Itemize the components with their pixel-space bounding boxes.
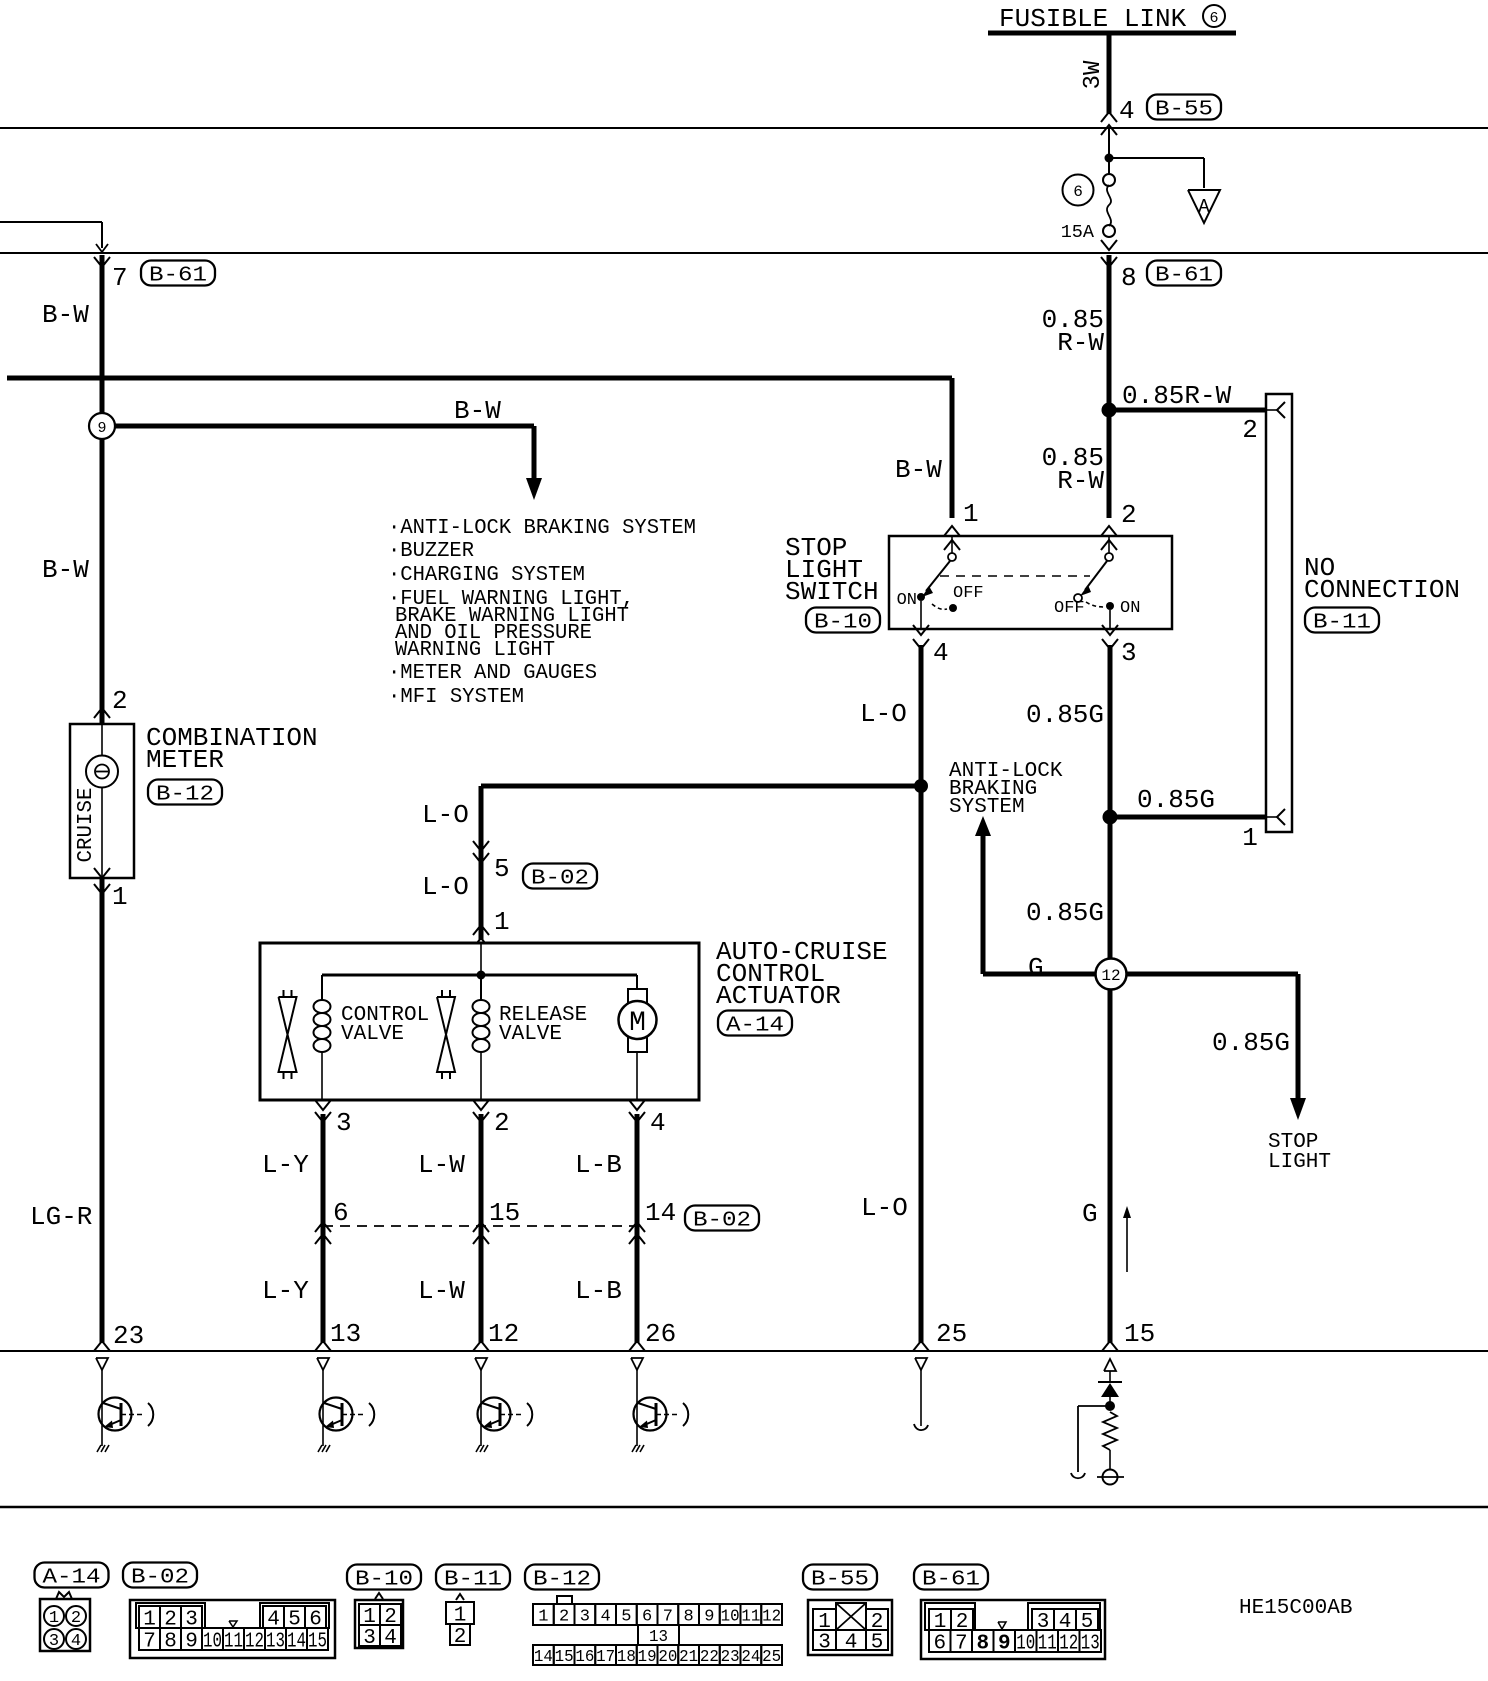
svg-text:5: 5 [621,1608,631,1627]
svg-text:6: 6 [1209,10,1218,27]
svg-text:G: G [1028,953,1044,983]
svg-text:B-11: B-11 [444,1569,502,1592]
svg-text:6: 6 [1073,183,1083,201]
svg-text:ON: ON [897,591,917,610]
svg-text:13: 13 [1081,1633,1100,1656]
svg-text:CRUISE: CRUISE [75,788,98,863]
svg-text:12: 12 [1101,967,1120,985]
svg-text:1: 1 [963,499,979,529]
svg-text:B-W: B-W [895,455,942,485]
svg-text:0.85R-W: 0.85R-W [1122,381,1232,411]
svg-text:14: 14 [534,1648,553,1667]
svg-text:B-W: B-W [42,300,89,330]
svg-text:2: 2 [559,1608,569,1627]
svg-text:B-02: B-02 [531,868,589,891]
svg-text:1: 1 [112,882,128,912]
svg-text:·ANTI-LOCK BRAKING SYSTEM: ·ANTI-LOCK BRAKING SYSTEM [388,517,696,540]
svg-text:7: 7 [112,263,128,293]
svg-text:23: 23 [721,1648,740,1667]
svg-text:22: 22 [700,1648,719,1667]
svg-text:B-11: B-11 [1313,612,1371,635]
svg-text:7: 7 [143,1631,156,1654]
svg-text:15: 15 [555,1648,574,1667]
svg-text:R-W: R-W [1057,328,1104,358]
svg-text:1: 1 [1242,823,1258,853]
svg-text:ACTUATOR: ACTUATOR [716,981,841,1011]
svg-text:B-W: B-W [42,555,89,585]
svg-text:24: 24 [741,1648,760,1667]
svg-text:9: 9 [704,1608,714,1627]
svg-text:SWITCH: SWITCH [785,577,879,607]
svg-text:10: 10 [721,1608,740,1627]
svg-text:B-55: B-55 [811,1569,869,1592]
svg-text:8: 8 [1121,263,1137,293]
svg-text:5: 5 [871,1632,884,1655]
svg-text:6: 6 [933,1633,946,1656]
svg-text:B-61: B-61 [149,265,207,288]
svg-text:11: 11 [224,1631,243,1654]
svg-text:13: 13 [266,1631,285,1654]
svg-text:0.85G: 0.85G [1212,1028,1290,1058]
svg-text:8: 8 [684,1608,694,1627]
svg-text:LIGHT: LIGHT [1268,1151,1331,1174]
svg-text:19: 19 [638,1648,657,1667]
svg-text:23: 23 [113,1321,144,1351]
svg-text:4: 4 [601,1608,611,1627]
svg-text:12: 12 [488,1319,519,1349]
svg-text:3W: 3W [1080,60,1107,89]
svg-text:A-14: A-14 [43,1567,101,1590]
svg-text:B-10: B-10 [814,612,872,635]
svg-text:15: 15 [308,1631,327,1654]
svg-text:1: 1 [494,907,510,937]
svg-text:M: M [629,1008,646,1039]
svg-text:WARNING LIGHT: WARNING LIGHT [395,639,555,662]
svg-text:B-02: B-02 [693,1210,751,1233]
svg-text:L-O: L-O [861,1193,908,1223]
svg-text:0.85G: 0.85G [1137,785,1215,815]
svg-text:4: 4 [933,638,949,668]
svg-text:A: A [1198,196,1210,218]
svg-text:L-W: L-W [418,1276,465,1306]
svg-text:15: 15 [1124,1319,1155,1349]
svg-text:8: 8 [164,1631,177,1654]
svg-text:3: 3 [336,1108,352,1138]
svg-text:3: 3 [580,1608,590,1627]
svg-text:6: 6 [333,1198,349,1228]
svg-text:25: 25 [936,1319,967,1349]
svg-text:4: 4 [1119,96,1135,126]
svg-text:OFF: OFF [953,584,984,603]
svg-text:B-10: B-10 [355,1569,413,1592]
svg-text:8: 8 [976,1633,989,1656]
svg-text:B-12: B-12 [156,784,214,807]
svg-text:3: 3 [818,1632,831,1655]
svg-text:·MFI SYSTEM: ·MFI SYSTEM [388,686,524,709]
svg-text:11: 11 [1038,1633,1057,1656]
svg-text:ON: ON [1120,599,1140,618]
svg-text:2: 2 [454,1626,467,1649]
svg-text:9: 9 [998,1633,1011,1656]
svg-text:7: 7 [955,1633,968,1656]
svg-text:METER: METER [146,745,224,775]
svg-text:FUSIBLE LINK: FUSIBLE LINK [999,4,1187,34]
svg-text:5: 5 [494,854,510,884]
svg-text:12: 12 [1059,1633,1078,1656]
svg-text:2: 2 [1242,415,1258,445]
svg-text:25: 25 [762,1648,781,1667]
svg-text:CONNECTION: CONNECTION [1304,575,1460,605]
svg-text:6: 6 [642,1608,652,1627]
svg-text:10: 10 [203,1631,222,1654]
svg-text:0.85G: 0.85G [1026,700,1104,730]
svg-text:17: 17 [596,1648,615,1667]
svg-text:4: 4 [845,1632,858,1655]
svg-text:G: G [1082,1199,1098,1229]
svg-text:18: 18 [617,1648,636,1667]
svg-text:7: 7 [663,1608,673,1627]
svg-text:16: 16 [575,1648,594,1667]
svg-text:12: 12 [245,1631,264,1654]
svg-text:10: 10 [1016,1633,1035,1656]
svg-text:11: 11 [741,1608,760,1627]
svg-text:B-55: B-55 [1155,99,1213,122]
svg-text:12: 12 [762,1608,781,1627]
svg-text:VALVE: VALVE [341,1023,404,1046]
svg-text:20: 20 [658,1648,677,1667]
svg-text:13: 13 [330,1319,361,1349]
svg-text:L-Y: L-Y [262,1276,309,1306]
svg-text:L-B: L-B [575,1276,622,1306]
svg-text:HE15C00AB: HE15C00AB [1239,1597,1352,1620]
svg-text:L-O: L-O [422,800,469,830]
svg-text:B-61: B-61 [922,1569,980,1592]
svg-text:1: 1 [538,1608,548,1627]
svg-text:9: 9 [185,1631,198,1654]
svg-text:9: 9 [97,420,106,437]
svg-text:21: 21 [679,1648,698,1667]
svg-text:14: 14 [287,1631,306,1654]
svg-text:B-61: B-61 [1155,265,1213,288]
svg-text:2: 2 [112,686,128,716]
svg-text:·BUZZER: ·BUZZER [388,540,474,563]
svg-text:OFF: OFF [1054,599,1085,618]
svg-text:15: 15 [489,1198,520,1228]
svg-text:4: 4 [71,1632,81,1651]
svg-text:LG-R: LG-R [30,1202,92,1232]
svg-text:4: 4 [650,1108,666,1138]
svg-text:R-W: R-W [1057,466,1104,496]
svg-text:A-14: A-14 [726,1015,784,1038]
svg-text:L-O: L-O [860,699,907,729]
svg-text:3: 3 [1121,638,1137,668]
svg-text:2: 2 [494,1108,510,1138]
svg-text:·CHARGING SYSTEM: ·CHARGING SYSTEM [388,564,585,587]
svg-text:B-02: B-02 [131,1567,189,1590]
svg-text:3: 3 [49,1632,59,1651]
svg-text:2: 2 [71,1609,81,1628]
svg-text:SYSTEM: SYSTEM [949,796,1025,819]
svg-text:B-12: B-12 [533,1569,591,1592]
svg-text:L-B: L-B [575,1150,622,1180]
svg-text:VALVE: VALVE [499,1023,562,1046]
svg-text:26: 26 [645,1319,676,1349]
svg-text:14: 14 [645,1198,676,1228]
svg-text:2: 2 [1121,500,1137,530]
svg-text:0.85G: 0.85G [1026,898,1104,928]
svg-text:·METER AND GAUGES: ·METER AND GAUGES [388,662,597,685]
svg-text:L-Y: L-Y [262,1150,309,1180]
svg-text:1: 1 [49,1609,59,1628]
svg-text:L-O: L-O [422,872,469,902]
svg-text:4: 4 [384,1627,397,1650]
svg-text:3: 3 [363,1627,376,1650]
svg-text:15A: 15A [1061,222,1095,243]
svg-text:B-W: B-W [454,396,501,426]
svg-text:L-W: L-W [418,1150,465,1180]
